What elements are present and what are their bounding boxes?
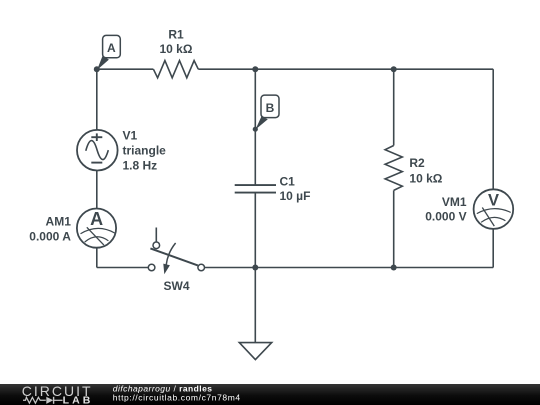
svg-text:A: A bbox=[90, 209, 103, 229]
svg-text:B: B bbox=[266, 101, 275, 115]
wire right vertical top (corner to VM1) bbox=[492, 69, 494, 189]
wire bottom-left horizontal to switch bbox=[97, 267, 149, 269]
resistor R1 bbox=[153, 61, 198, 78]
svg-text:1.8 Hz: 1.8 Hz bbox=[123, 158, 158, 172]
svg-text:R2: R2 bbox=[409, 156, 425, 170]
junction node A corner bbox=[94, 66, 100, 72]
wire ground stem bbox=[254, 268, 256, 343]
wire top horizontal (R1 to top-right corner) bbox=[198, 68, 493, 70]
wire AM1 to bottom-left corner bbox=[96, 248, 98, 268]
junction top C1 branch bbox=[252, 66, 258, 72]
junction bottom C1/ground bbox=[252, 265, 258, 271]
wire left vertical (node A to V1) bbox=[96, 69, 98, 130]
wire VM1 to bottom-right corner bbox=[492, 229, 494, 268]
wire switch right terminal to bottom-right corner bbox=[205, 267, 494, 269]
svg-text:V1: V1 bbox=[123, 128, 138, 142]
svg-text:LAB: LAB bbox=[63, 394, 94, 405]
svg-text:C1: C1 bbox=[280, 175, 296, 189]
svg-text:SW4: SW4 bbox=[163, 279, 189, 293]
svg-text:10 kΩ: 10 kΩ bbox=[409, 172, 442, 186]
switch SW4 bbox=[148, 228, 204, 271]
wire R2 branch lower bbox=[393, 190, 395, 267]
junction bottom R2 branch bbox=[391, 265, 397, 271]
svg-text:VM1: VM1 bbox=[442, 195, 467, 209]
wire top horizontal left (node A to R1) bbox=[97, 68, 154, 70]
svg-text:triangle: triangle bbox=[123, 143, 167, 157]
svg-text:10 µF: 10 µF bbox=[280, 189, 311, 203]
ground bbox=[239, 343, 271, 360]
wire C1 branch upper (top wire to C1) bbox=[254, 69, 256, 185]
CircuitLab logo diode bbox=[46, 397, 53, 404]
CircuitLab logo resistor squiggle bbox=[23, 397, 46, 403]
svg-text:A: A bbox=[107, 41, 116, 55]
node B flag bbox=[253, 95, 279, 132]
svg-text:0.000 A: 0.000 A bbox=[29, 230, 71, 244]
resistor R2 bbox=[385, 146, 402, 191]
wire C1 branch lower (C1 to bottom wire) bbox=[254, 193, 256, 268]
voltmeter VM1 bbox=[474, 189, 514, 229]
node A flag bbox=[97, 35, 120, 70]
wire R2 branch upper bbox=[393, 69, 395, 145]
svg-text:10 kΩ: 10 kΩ bbox=[160, 42, 193, 56]
capacitor C1 bbox=[235, 185, 276, 193]
svg-text:R1: R1 bbox=[168, 27, 184, 41]
svg-text:AM1: AM1 bbox=[46, 215, 72, 229]
svg-text:0.000 V: 0.000 V bbox=[425, 210, 466, 224]
svg-text:http://circuitlab.com/c7n78m4: http://circuitlab.com/c7n78m4 bbox=[113, 393, 241, 403]
junction top R2 branch bbox=[391, 66, 397, 72]
source V1 bbox=[77, 130, 118, 171]
wire V1 to AM1 bbox=[96, 170, 98, 208]
svg-text:V: V bbox=[488, 191, 499, 209]
footer bar bbox=[0, 384, 540, 405]
ammeter AM1 bbox=[77, 209, 116, 248]
